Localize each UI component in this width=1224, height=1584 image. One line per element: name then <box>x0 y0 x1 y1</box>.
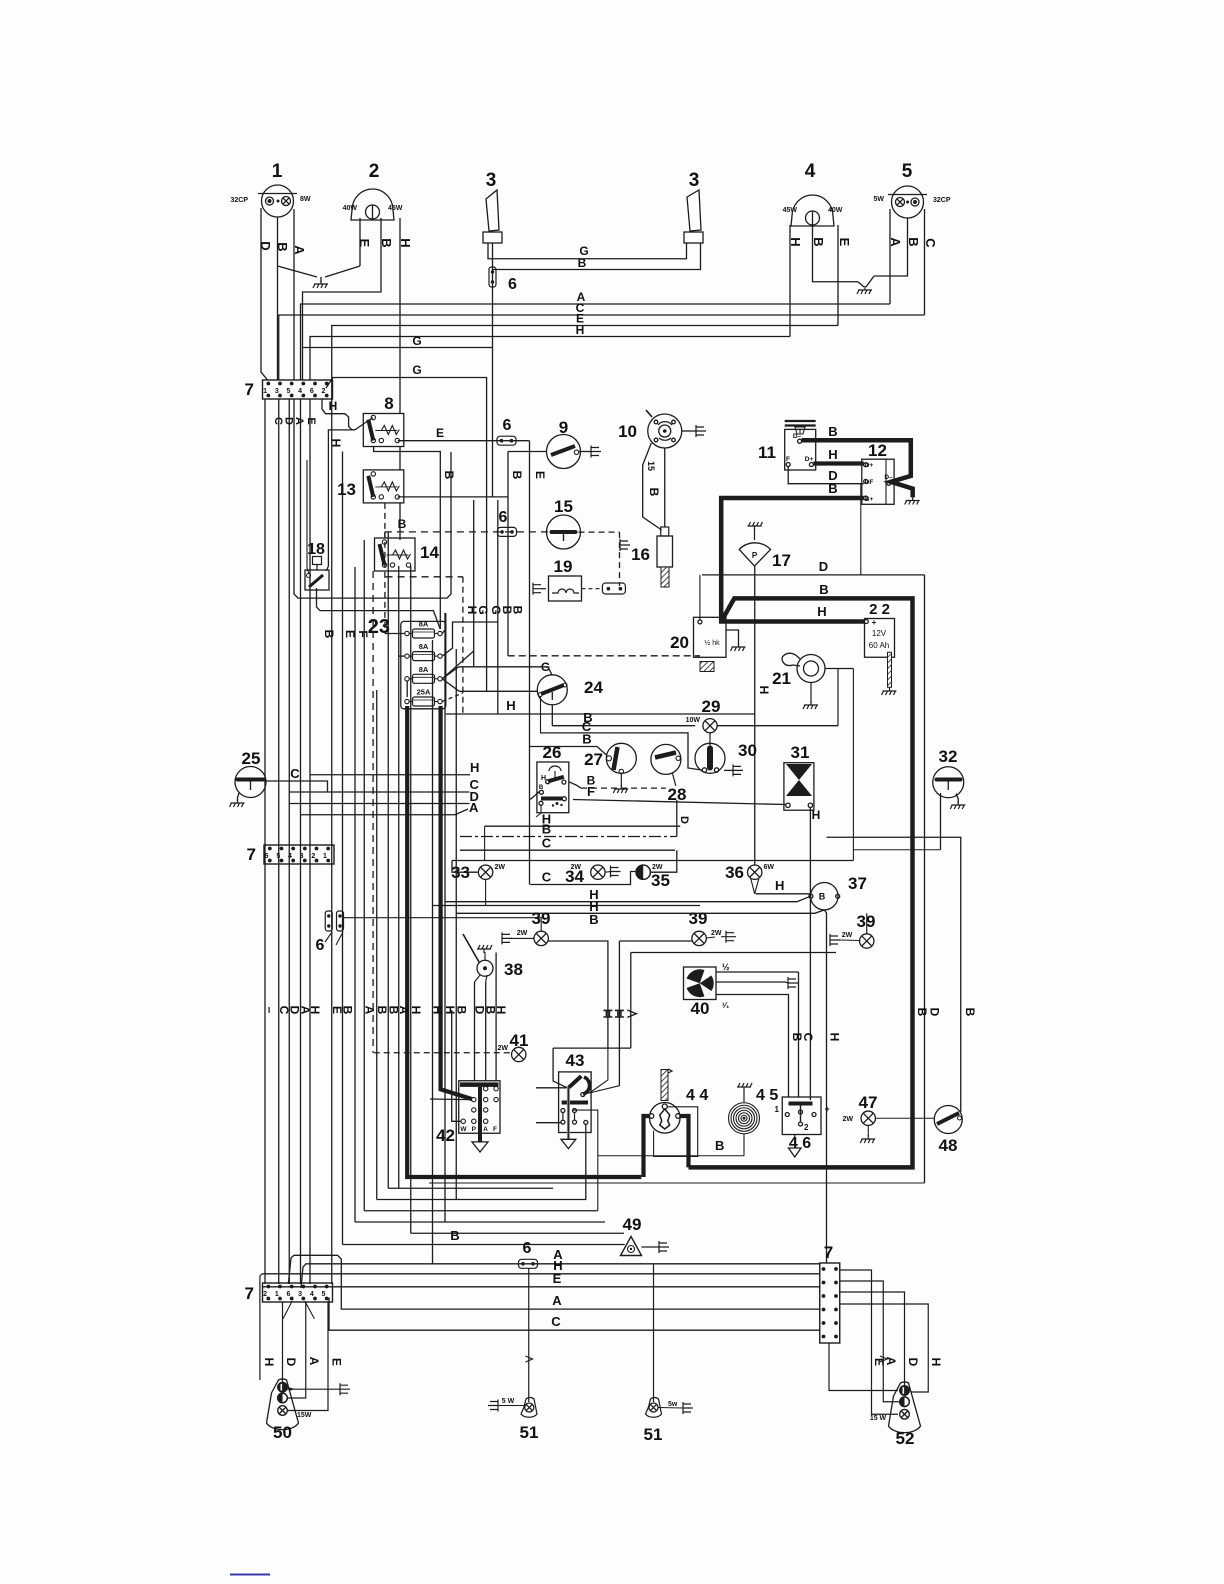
svg-text:B: B <box>341 1006 355 1015</box>
svg-text:1: 1 <box>272 161 283 182</box>
svg-text:10W: 10W <box>686 717 701 724</box>
bundle wire D x=289.25 <box>288 399 290 1284</box>
svg-text:35: 35 <box>651 871 670 890</box>
regulator 11 <box>785 429 816 470</box>
svg-text:39: 39 <box>689 909 708 928</box>
crossing diagonals under conn7 <box>305 1301 315 1319</box>
svg-text:H: H <box>817 604 826 619</box>
wire C from lamp 5 <box>924 209 926 315</box>
horn 21 <box>797 655 825 683</box>
wire E from switch 8 <box>398 440 530 442</box>
fuse 2 8A <box>413 652 435 661</box>
wire 38 legs <box>475 975 481 982</box>
svg-text:D: D <box>258 241 273 250</box>
wire row A 1264 <box>301 1264 820 1288</box>
connector 6 on E wire <box>497 436 516 445</box>
wire 18 left terminal up <box>307 460 309 573</box>
svg-text:B: B <box>715 1138 724 1153</box>
svg-text:B: B <box>819 892 826 902</box>
wire fan lower <box>716 995 789 1098</box>
svg-text:3: 3 <box>689 170 700 191</box>
svg-text:5: 5 <box>902 161 913 182</box>
wire C row2 <box>540 733 702 770</box>
wire row 1233 <box>411 1232 624 1234</box>
svg-text:D: D <box>283 417 295 425</box>
lamp 39 mid <box>692 931 706 945</box>
svg-text:6: 6 <box>287 1291 291 1298</box>
wire D to 48 <box>827 837 961 1112</box>
svg-text:½ hk: ½ hk <box>704 639 720 647</box>
wire H from lamp 4 <box>789 225 791 337</box>
svg-text:12V: 12V <box>872 629 887 638</box>
wire G between flashers <box>488 243 687 259</box>
ignition sw 44 <box>649 1103 680 1134</box>
wire A from lamp 5 <box>889 209 891 304</box>
svg-text:B: B <box>578 256 587 270</box>
wire D dist <box>289 803 469 805</box>
bundle wire F2 <box>354 567 356 1222</box>
inline connector symbols <box>603 1010 612 1017</box>
svg-text:48: 48 <box>939 1136 958 1155</box>
wire row B 1244 <box>343 1244 625 1246</box>
svg-text:2: 2 <box>311 853 315 860</box>
pulley above regulator 11 <box>785 420 816 422</box>
wire 39R row <box>631 952 836 954</box>
svg-text:E: E <box>533 471 547 479</box>
svg-text:10: 10 <box>618 422 637 441</box>
svg-text:A: A <box>552 1293 562 1308</box>
wire H dist <box>310 774 470 776</box>
connector 6 bottom <box>519 1259 538 1268</box>
lamp 47 <box>861 1111 875 1125</box>
svg-text:43: 43 <box>566 1051 585 1070</box>
bundle wire B x=388.25 <box>387 532 389 1188</box>
svg-text:C: C <box>542 870 552 885</box>
bundle wire A x=364.25 <box>363 540 365 1211</box>
svg-text:C: C <box>923 238 938 248</box>
wire into 52 top <box>829 1343 898 1391</box>
svg-text:23: 23 <box>368 616 390 638</box>
svg-text:B: B <box>819 582 828 597</box>
svg-text:B: B <box>828 424 837 439</box>
wire row 1222 <box>355 1221 605 1223</box>
svg-text:60 Ah: 60 Ah <box>869 641 889 650</box>
wire row H 1274 <box>262 1273 820 1275</box>
svg-text:¹⁄₁: ¹⁄₁ <box>722 1001 730 1010</box>
bundle wire C x=278.75 <box>278 399 280 1284</box>
bundle wire B x=376.75 <box>376 690 378 1200</box>
svg-text:H: H <box>775 878 784 893</box>
wire from distributor to coil 15/16 <box>643 443 662 530</box>
wire D from 11 F to 12 DF <box>788 467 864 484</box>
svg-text:15W: 15W <box>297 1412 312 1419</box>
wire from horn to B line <box>837 669 839 726</box>
svg-text:P: P <box>752 551 758 560</box>
fuel gauge 31 <box>784 763 814 811</box>
wire H row37b <box>433 905 701 907</box>
svg-text:3: 3 <box>275 388 279 395</box>
svg-text:40W: 40W <box>828 207 843 214</box>
svg-text:E: E <box>343 630 357 638</box>
thick wire B+ to battery <box>721 498 864 622</box>
wire 36-37 H <box>756 893 811 895</box>
dashed wire B to 14 <box>384 503 386 532</box>
wire F row <box>573 800 786 805</box>
svg-text:E: E <box>872 1358 886 1366</box>
svg-text:C: C <box>272 417 284 425</box>
svg-text:25A: 25A <box>417 688 431 697</box>
bundle wire A x=300.5 <box>300 399 302 1284</box>
switch 24 (wiper switch) <box>537 675 567 705</box>
svg-text:38: 38 <box>504 960 523 979</box>
svg-text:2: 2 <box>369 161 380 182</box>
svg-text:41: 41 <box>510 1031 529 1050</box>
switch 28 (panel switch) <box>651 744 681 774</box>
sub box right of 43 <box>572 1110 598 1211</box>
thick wire H from 11 D+ to 12 D+ <box>813 461 863 465</box>
svg-text:C: C <box>551 1314 561 1329</box>
dashed bus B <box>385 531 550 533</box>
svg-text:F: F <box>587 784 595 799</box>
switch 18 (brake switch) <box>305 570 329 590</box>
wire D from lamp 1 <box>261 208 268 380</box>
ignition switch 9 <box>547 435 581 469</box>
svg-text:P: P <box>472 1126 477 1133</box>
svg-text:15: 15 <box>554 497 573 516</box>
page underline artifact <box>230 1574 270 1576</box>
ignition coil 16 <box>661 527 669 536</box>
wire conn6 to 39L <box>343 918 541 932</box>
svg-text:B: B <box>915 1008 929 1017</box>
wire fuse3 to 24 left <box>459 690 537 692</box>
wire to switch 8 <box>322 399 355 430</box>
connector 6 on dashed bus <box>498 527 517 536</box>
dashed row to 41 <box>374 1052 512 1054</box>
generator 12 <box>862 459 894 504</box>
lamp 34 <box>591 865 605 879</box>
fuse 1 8A <box>413 629 435 638</box>
svg-text:H: H <box>541 775 546 782</box>
wire from fuse3 left <box>406 681 408 697</box>
lamp 29 <box>703 719 717 733</box>
warning tri 49 <box>621 1237 642 1256</box>
wire 33 feed <box>452 861 478 873</box>
svg-text:6: 6 <box>316 937 325 954</box>
wire U below 18 <box>294 399 451 598</box>
svg-text:8W: 8W <box>300 196 311 203</box>
connector block 7 (middle) <box>264 845 334 864</box>
svg-text:5W: 5W <box>874 196 885 203</box>
wire E from lamp 4 <box>837 225 839 326</box>
wire from fuse2 right <box>442 622 498 656</box>
svg-text:B: B <box>582 732 591 747</box>
svg-text:6W: 6W <box>764 864 775 871</box>
svg-text:E: E <box>837 238 852 247</box>
svg-text:D: D <box>819 559 828 574</box>
bus wire C <box>279 315 925 380</box>
bundle wire H x=445 <box>444 613 446 1222</box>
wire C to 35 <box>530 872 636 885</box>
svg-text:2 2: 2 2 <box>869 601 890 618</box>
svg-text:27: 27 <box>584 750 603 769</box>
bundle wire H x=410.75 <box>410 566 412 1233</box>
svg-text:1: 1 <box>263 388 267 395</box>
connector block 7 (upper) <box>263 380 333 399</box>
svg-text:45W: 45W <box>783 207 798 214</box>
svg-text:39: 39 <box>857 912 876 931</box>
svg-text:–: – <box>263 1007 277 1014</box>
wire H horizontal <box>446 713 755 715</box>
licence lamp 51 left <box>521 1397 537 1417</box>
switch 48 (door switch) <box>934 1106 962 1134</box>
switch 13 (flasher relay) <box>363 470 404 503</box>
svg-text:2W: 2W <box>517 930 528 937</box>
svg-text:B: B <box>454 1006 468 1015</box>
riser G1 <box>473 500 475 667</box>
svg-text:32: 32 <box>939 747 958 766</box>
svg-text:31: 31 <box>791 743 810 762</box>
svg-text:B: B <box>510 471 524 480</box>
svg-text:7: 7 <box>247 845 256 864</box>
ground left of 19 <box>533 583 543 595</box>
svg-text:37: 37 <box>848 874 867 893</box>
svg-text:E: E <box>553 1271 562 1286</box>
wire C from 25 <box>266 781 328 792</box>
rail D x924 <box>924 575 926 1183</box>
switch 26 (lighting switch) <box>537 762 569 813</box>
coil 45 (resistor) <box>741 1115 747 1121</box>
svg-text:17: 17 <box>772 551 791 570</box>
svg-text:E: E <box>436 426 444 440</box>
svg-text:42: 42 <box>436 1126 455 1145</box>
svg-text:H: H <box>828 1033 842 1042</box>
wire link 8-13 <box>399 447 401 470</box>
wire B row37 <box>456 910 824 913</box>
svg-text:D+: D+ <box>805 456 814 463</box>
dashed wire 15 to right <box>579 531 620 533</box>
svg-text:25: 25 <box>242 749 261 768</box>
wire out 26 bottom <box>536 805 541 817</box>
svg-text:D: D <box>284 1358 298 1367</box>
svg-text:H: H <box>431 1006 445 1015</box>
wire B from lamp 4 <box>813 225 859 282</box>
wire E riser <box>529 441 531 885</box>
ground 50 <box>287 1388 340 1390</box>
svg-text:D: D <box>906 1358 920 1367</box>
wire 24 down <box>551 705 553 726</box>
ground junction right lamps <box>858 282 864 287</box>
svg-text:2: 2 <box>804 1123 809 1132</box>
bundle wire B x=485.7 <box>485 982 487 1081</box>
svg-text:H: H <box>470 760 479 775</box>
lamp 33 <box>485 879 487 905</box>
svg-text:2W: 2W <box>711 930 722 937</box>
svg-text:6: 6 <box>310 388 314 395</box>
svg-text:B: B <box>398 517 407 531</box>
svg-text:A: A <box>292 245 307 255</box>
svg-text:26: 26 <box>543 743 562 762</box>
wire center electrode <box>664 448 666 527</box>
lamp 41 <box>512 1047 526 1061</box>
svg-text:B: B <box>790 1033 804 1042</box>
svg-text:H: H <box>757 686 771 695</box>
wire row E 1287 <box>263 1286 820 1288</box>
lamp 30 (instrument cluster) <box>695 743 725 773</box>
wire H drop <box>326 430 355 571</box>
svg-text:3: 3 <box>298 1291 302 1298</box>
svg-text:H: H <box>409 1006 423 1015</box>
wire 29 to 30 <box>709 733 711 746</box>
thin return wire <box>429 1182 925 1184</box>
svg-text:5: 5 <box>287 388 291 395</box>
connector block 7 (lower) <box>263 1283 333 1302</box>
svg-text:G: G <box>412 334 421 348</box>
wires into 50 <box>282 1301 284 1382</box>
svg-text:14: 14 <box>420 543 439 562</box>
svg-text:A: A <box>888 237 903 247</box>
wire stem flasher 3 left <box>492 243 494 497</box>
svg-text:30: 30 <box>738 741 757 760</box>
bundle wire &#8211; x=265 <box>264 399 266 1284</box>
svg-text:5w: 5w <box>668 1401 678 1408</box>
dashed riser fuse1 <box>384 532 386 634</box>
svg-text:B: B <box>906 237 921 246</box>
wire B from lamp 2 <box>303 218 382 380</box>
wire fuse3 to 24 top <box>459 667 552 675</box>
wire 35 right <box>650 850 676 872</box>
svg-text:1: 1 <box>275 1291 279 1298</box>
svg-text:8A: 8A <box>419 620 429 629</box>
svg-text:4 5: 4 5 <box>756 1087 778 1104</box>
wire C row33 <box>460 849 675 851</box>
svg-text:B: B <box>379 238 394 247</box>
relay 19 <box>549 576 582 601</box>
svg-text:E: E <box>305 417 317 424</box>
wire B row1 right <box>717 725 838 727</box>
svg-text:D: D <box>678 816 690 824</box>
connector block 7 (right vertical) <box>820 1263 840 1343</box>
svg-text:A: A <box>469 800 479 815</box>
wire into ignition switch 9 <box>508 451 547 453</box>
thick wire main B rail <box>689 598 913 1167</box>
svg-text:A: A <box>483 1126 488 1133</box>
svg-text:B: B <box>450 1228 459 1243</box>
wire A from lamp 1 <box>293 209 295 380</box>
svg-text:4 4: 4 4 <box>686 1087 708 1104</box>
fuse 4 25A <box>413 697 435 706</box>
headlamp unit 1 (left parking/headlamp) <box>262 185 294 217</box>
wire G upper <box>303 347 493 349</box>
lamp 39 left <box>534 931 548 945</box>
wire G lower <box>326 378 487 692</box>
thick wire from fuse4 left <box>407 706 641 1177</box>
wire into 42 W <box>452 1010 461 1121</box>
lamp 15 (oil pressure) <box>547 515 581 549</box>
dashed riser <box>372 571 374 1053</box>
fuse 3 8A <box>413 674 435 683</box>
wire C dist <box>289 791 469 793</box>
wire 51L drop <box>528 1268 530 1402</box>
wire into 43 pivot <box>536 1087 566 1089</box>
wire B mid <box>598 1155 744 1157</box>
lamp 36 <box>748 865 762 879</box>
svg-text:H: H <box>506 698 515 713</box>
svg-text:2W: 2W <box>571 864 582 871</box>
svg-text:9: 9 <box>559 418 568 437</box>
wire A dist <box>301 809 469 815</box>
bundle wire D x=474.5 <box>474 982 476 1081</box>
svg-text:24: 24 <box>584 678 603 697</box>
wire funnel base <box>553 1047 631 1049</box>
wire 31 right terminal down <box>809 808 811 1101</box>
bundle wire H x=496.1 <box>495 953 497 1082</box>
svg-text:7: 7 <box>245 380 254 399</box>
svg-text:G: G <box>412 363 421 377</box>
svg-text:5: 5 <box>322 1291 326 1298</box>
distributor 10 <box>648 414 682 448</box>
svg-text:51: 51 <box>520 1423 539 1442</box>
svg-text:29: 29 <box>702 697 721 716</box>
svg-text:45W: 45W <box>388 205 403 212</box>
wire row 1199 <box>377 1124 586 1199</box>
gauge 32 (temp gauge sender) <box>933 767 964 798</box>
bus wire A <box>301 304 891 380</box>
svg-text:2W: 2W <box>652 864 663 871</box>
svg-text:19: 19 <box>554 557 573 576</box>
wire 36 down <box>751 879 755 894</box>
svg-text:12: 12 <box>868 441 887 460</box>
bus wire H <box>310 337 790 381</box>
svg-text:½: ½ <box>722 962 730 972</box>
svg-text:A: A <box>362 1006 376 1015</box>
svg-text:16: 16 <box>631 545 650 564</box>
wire B between flashers <box>493 243 701 270</box>
svg-text:5 W: 5 W <box>502 1398 515 1405</box>
ground junction below lamps 1-2 <box>278 266 318 277</box>
gauge 25 (fuel gauge sender) <box>235 767 266 798</box>
wire from 17 down to 36 <box>754 566 756 865</box>
dashed wire B from 26 <box>569 782 581 788</box>
bus wire E <box>332 326 838 400</box>
ground of generator <box>905 497 920 505</box>
switch 27 (panel switch) <box>606 743 636 773</box>
svg-text:50: 50 <box>273 1423 292 1442</box>
thick wire 44 right <box>680 1116 688 1167</box>
wire 37 to connector rail <box>824 910 826 1263</box>
svg-text:49: 49 <box>623 1215 642 1234</box>
svg-text:B: B <box>442 471 456 480</box>
wire H from lamp 2 <box>399 218 401 414</box>
svg-text:33: 33 <box>451 863 470 882</box>
wire 18 to fuse 1 <box>317 588 441 629</box>
svg-text:H: H <box>828 447 837 462</box>
wire fan from fuse3 right <box>442 651 474 679</box>
wire 39M riser <box>619 940 692 942</box>
svg-text:B: B <box>275 242 290 251</box>
svg-text:H: H <box>329 399 338 413</box>
svg-text:2W: 2W <box>495 864 506 871</box>
ground under 27 <box>620 774 622 786</box>
svg-text:2: 2 <box>322 388 326 395</box>
bundle wire B x=342.5 <box>342 452 344 1245</box>
bundle wire H x=432.5 <box>432 640 434 1264</box>
svg-text:40: 40 <box>691 999 710 1018</box>
thick wire from fuse4 right <box>441 706 474 1100</box>
small ground on dashed <box>620 539 630 551</box>
svg-text:G: G <box>476 605 490 614</box>
wire fan to 46 <box>798 972 800 1097</box>
svg-text:47: 47 <box>859 1093 878 1112</box>
